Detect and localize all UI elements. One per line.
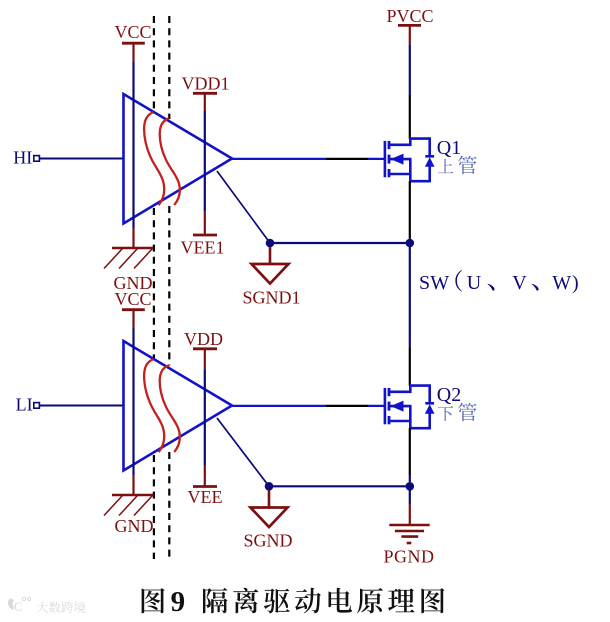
wire U2 output to Q2 gate xyxy=(231,405,385,407)
op-amp U2 isolated buffer (low side) xyxy=(124,341,233,471)
wire SGND node to PGND node xyxy=(269,485,410,487)
svg-text:): ) xyxy=(572,272,579,294)
wire VCC through U1 to GND xyxy=(132,62,134,228)
svg-text:C: C xyxy=(14,599,23,614)
svg-text:SGND: SGND xyxy=(243,531,292,551)
svg-text:PGND: PGND xyxy=(383,547,434,567)
node LI input port xyxy=(16,395,40,415)
wire PVCC to Q1 drain xyxy=(409,45,411,139)
wire LI to buffer U2 xyxy=(39,405,123,407)
svg-text:V: V xyxy=(512,272,527,294)
wire SW node to Q2 drain xyxy=(409,247,411,386)
wire Q2 source to PGND node xyxy=(409,428,411,482)
node Q2 label 下管 xyxy=(438,403,477,422)
isolation break squiggle lower-left xyxy=(144,359,164,452)
junction SW node xyxy=(406,239,415,248)
svg-text:VCC: VCC xyxy=(114,22,151,42)
power VEE1 supply xyxy=(181,211,225,258)
power VCC supply (lower) xyxy=(114,289,151,328)
caption 图9 隔离驱动电原理图 xyxy=(142,586,445,618)
svg-text:Q2: Q2 xyxy=(437,384,461,406)
svg-text:PVCC: PVCC xyxy=(386,6,433,26)
ground GND chassis symbol (upper) xyxy=(104,228,154,293)
svg-text:VEE1: VEE1 xyxy=(181,238,225,258)
op-amp U1 isolated buffer (high side) xyxy=(124,94,233,224)
isolation break squiggle lower-right xyxy=(160,365,180,452)
junction PGND node xyxy=(406,482,415,491)
wire VDD through U2 to VEE xyxy=(204,370,206,465)
power VDD supply xyxy=(184,329,223,370)
wire HI to buffer U1 xyxy=(39,158,123,160)
isolation break squiggle upper-right xyxy=(160,118,180,205)
svg-text:HI: HI xyxy=(13,148,32,168)
ground SGND1 symbol xyxy=(242,247,300,308)
isolation barrier dashed line right xyxy=(168,16,170,559)
watermark logo 大数跨境 xyxy=(8,597,86,614)
isolation break squiggle upper-left xyxy=(144,112,164,205)
power VCC supply (top left) xyxy=(114,22,151,62)
svg-text:SGND1: SGND1 xyxy=(242,288,300,308)
svg-text:Q1: Q1 xyxy=(437,137,461,159)
ground PGND earth symbol xyxy=(383,490,434,567)
power VDD1 supply xyxy=(182,74,230,112)
wire U1 reference to SGND1 node (diagonal) xyxy=(217,171,270,243)
node SW (U,V,W) label xyxy=(419,270,579,294)
svg-text:VCC: VCC xyxy=(114,289,151,309)
svg-text:VEE: VEE xyxy=(188,487,223,507)
wire U1 output to Q1 gate xyxy=(232,158,385,160)
svg-text:LI: LI xyxy=(16,395,33,415)
junction SGND node xyxy=(265,482,274,491)
svg-text:VDD: VDD xyxy=(184,329,223,349)
wire VCC through U2 to GND xyxy=(132,328,134,475)
svg-text:GND: GND xyxy=(115,516,154,536)
wire VDD1 through U1 to VEE1 xyxy=(204,111,206,211)
junction SGND1 node xyxy=(266,239,275,248)
svg-text:W: W xyxy=(430,272,449,294)
node HI input port xyxy=(13,148,39,168)
ground GND chassis symbol (lower) xyxy=(104,475,154,536)
wire Q1 source to SW node xyxy=(409,181,411,247)
ground SGND symbol xyxy=(243,490,292,551)
power VEE supply xyxy=(188,465,223,507)
isolation barrier dashed line left xyxy=(153,16,155,559)
node Q1 label 上管 xyxy=(438,156,477,175)
svg-text:S: S xyxy=(419,272,430,294)
svg-text:U: U xyxy=(467,272,482,294)
svg-text:VDD1: VDD1 xyxy=(182,74,230,94)
wire SGND1 node to SW node xyxy=(270,242,410,244)
svg-text:W: W xyxy=(552,272,571,294)
svg-text:9: 9 xyxy=(171,586,186,618)
transistor Q2 (low-side MOSFET) xyxy=(385,384,435,429)
transistor Q1 (high-side MOSFET) xyxy=(385,137,435,182)
wire U2 reference to SGND node (diagonal) xyxy=(217,418,269,486)
power PVCC supply (top) xyxy=(386,6,433,45)
